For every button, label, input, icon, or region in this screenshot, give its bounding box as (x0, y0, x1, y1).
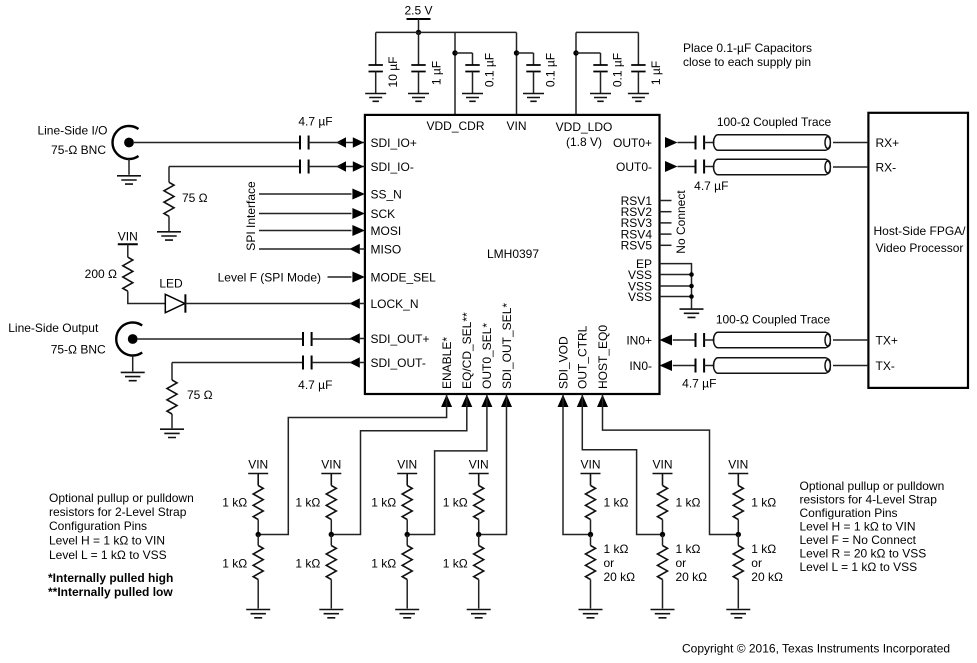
wire: C2 bottom lead (418, 72, 420, 94)
wire: VSS stub (660, 274, 692, 276)
svg-text:1 kΩ: 1 kΩ (751, 542, 776, 556)
wire: T1 to RX+ (833, 142, 867, 144)
pin OUT0_SEL* input arrow (481, 394, 492, 407)
svg-text:Level L = 1 kΩ to VSS: Level L = 1 kΩ to VSS (800, 560, 918, 574)
svg-text:Level F (SPI Mode): Level F (SPI Mode) (218, 271, 321, 285)
wire: SS_N (259, 193, 352, 195)
wire: HOST_EQ0 strap (603, 394, 739, 534)
wire: C4 bottom lead (533, 72, 535, 94)
capacitor C8 4.7 µF (300, 160, 309, 174)
svg-text:1 kΩ: 1 kΩ (676, 542, 701, 556)
svg-text:MODE_SEL: MODE_SEL (371, 270, 437, 284)
wire: R10 to node (737, 520, 739, 535)
pin IN0- input arrow (660, 360, 673, 371)
note: 4-level strap options (800, 479, 945, 574)
node: VDD_CDR cap tap (452, 50, 457, 55)
wire: J1 to C7 (134, 142, 300, 144)
svg-text:4.7 µF: 4.7 µF (682, 376, 716, 390)
wire: R15 to ground (590, 580, 592, 609)
svg-text:20 kΩ: 20 kΩ (676, 570, 708, 584)
resistor R1 75 Ω (164, 182, 174, 216)
svg-text:Level L = 1 kΩ to VSS: Level L = 1 kΩ to VSS (49, 548, 167, 562)
svg-text:Video Processor: Video Processor (876, 241, 964, 255)
svg-text:75-Ω BNC: 75-Ω BNC (51, 343, 106, 357)
wire: node to R17 (737, 535, 739, 546)
svg-text:Line-Side I/O: Line-Side I/O (37, 123, 107, 137)
ground (strap 4) (467, 610, 491, 618)
svg-text:close to each supply pin: close to each supply pin (683, 55, 811, 69)
svg-text:1 kΩ: 1 kΩ (295, 556, 320, 570)
resistor R17 1 kΩ/20 kΩ pull-down (733, 546, 743, 580)
svg-text:VIN: VIN (506, 119, 526, 133)
node: VSS junction (689, 294, 694, 299)
wire: C3 branch (455, 53, 473, 65)
node: 2.5 V rail junction (416, 30, 421, 35)
note: place caps close to supply pins (683, 41, 812, 69)
svg-text:Line-Side Output: Line-Side Output (8, 321, 99, 335)
svg-text:OUT0+: OUT0+ (613, 136, 652, 150)
ground (J2) (121, 372, 145, 380)
pin ENABLE* input arrow (441, 394, 452, 407)
svg-text:Level H = 1 kΩ to VIN: Level H = 1 kΩ to VIN (49, 533, 165, 547)
svg-text:SDI_OUT+: SDI_OUT+ (371, 332, 430, 346)
wire: R17 to ground (737, 580, 739, 609)
ground (strap 1) (246, 610, 270, 618)
svg-text:4.7 µF: 4.7 µF (298, 378, 332, 392)
wire: VIN pin lead (516, 32, 518, 115)
wire: R12 to ground (330, 580, 332, 609)
svg-text:Level R = 20 kΩ to VSS: Level R = 20 kΩ to VSS (800, 546, 927, 560)
resistor R11 1 kΩ pull-down (253, 546, 263, 580)
wire: R13 to ground (406, 580, 408, 609)
capacitor C7 4.7 µF (300, 136, 309, 150)
capacitor C5 0.1 µF (593, 65, 607, 72)
resistor R5 1 kΩ pull-up (326, 486, 336, 520)
ground (R3) (160, 429, 184, 437)
svg-text:VDD_CDR: VDD_CDR (426, 119, 484, 133)
wire: C4 branch (517, 53, 534, 65)
svg-text:Level H = 1 kΩ to VIN: Level H = 1 kΩ to VIN (800, 519, 916, 533)
wire: MISO (259, 248, 352, 250)
capacitor C2 1 µF (411, 65, 425, 72)
resistor R10 1 kΩ pull-up (733, 486, 743, 520)
ground (strap 3) (395, 610, 419, 618)
svg-text:Host-Side FPGA/: Host-Side FPGA/ (873, 224, 966, 238)
node: VSS junction (689, 284, 694, 289)
svg-text:resistors for 2-Level Strap: resistors for 2-Level Strap (49, 505, 187, 519)
svg-text:Configuration Pins: Configuration Pins (49, 519, 147, 533)
wire: LED cathode to LOCK_N (185, 303, 351, 305)
svg-text:SCK: SCK (371, 207, 396, 221)
supply rail VIN (LED pull-up) (118, 229, 138, 257)
svg-text:SDI_IO-: SDI_IO- (371, 160, 414, 174)
svg-text:LMH0397: LMH0397 (487, 247, 539, 261)
svg-text:MOSI: MOSI (371, 224, 402, 238)
wire: VDD_LDO pin lead (575, 32, 577, 115)
wire: VDD_CDR pin lead (454, 32, 456, 115)
wire: node to R14 (478, 535, 480, 546)
svg-text:1 kΩ: 1 kΩ (222, 495, 247, 509)
node strap 4 (476, 532, 481, 537)
wire: EQ/CD_SEL** strap (331, 394, 467, 534)
resistor R6 1 kΩ pull-up (402, 486, 412, 520)
resistor R15 1 kΩ/20 kΩ pull-down (586, 546, 596, 580)
wire: supply bus 2.5 V (376, 31, 517, 33)
pin SS_N input arrow (352, 189, 365, 200)
wire: R5 to node (330, 520, 332, 535)
resistor R12 1 kΩ pull-down (326, 546, 336, 580)
wire: C13 to IN0+ (673, 339, 696, 341)
ground (C3) (462, 94, 483, 102)
wire: C6 bottom lead (637, 72, 639, 94)
capacitor C13 4.7 µF (696, 333, 705, 347)
node strap 2 (329, 532, 334, 537)
svg-text:1 kΩ: 1 kΩ (371, 495, 396, 509)
wire: SDI_OUT- stub (360, 362, 365, 364)
wire: R11 to ground (257, 580, 259, 609)
node strap 6 (660, 532, 665, 537)
pin OUT_CTRL input arrow (577, 394, 588, 407)
pin EQ/CD_SEL** input arrow (461, 394, 472, 407)
svg-text:200 Ω: 200 Ω (85, 267, 117, 281)
wire: MISO stub (360, 248, 365, 250)
svg-text:75 Ω: 75 Ω (182, 191, 208, 205)
transmission line T1 (100-Ω coupled trace) (713, 135, 830, 151)
svg-text:1 kΩ: 1 kΩ (371, 556, 396, 570)
ground (R1) (157, 232, 181, 240)
wire: OUT0_SEL* strap (407, 394, 487, 534)
svg-text:VIN: VIN (728, 457, 748, 471)
wire: J2 ground lead (132, 356, 134, 372)
wire: C7 to SDI_IO+ (309, 142, 341, 144)
svg-text:1 kΩ: 1 kΩ (604, 495, 629, 509)
svg-text:SPI Interface: SPI Interface (244, 181, 258, 251)
pin IN0+ input arrow (660, 335, 673, 346)
wire: C12 to trace (704, 166, 714, 168)
wire: C10 to SDI_OUT- (312, 362, 352, 364)
svg-text:*Internally pulled high: *Internally pulled high (48, 571, 173, 585)
wire: node to R11 (257, 535, 259, 546)
pin OUT0+ output arrow (665, 137, 678, 148)
svg-text:LOCK_N: LOCK_N (371, 297, 419, 311)
svg-text:VIN: VIN (248, 457, 268, 471)
wire: VDD_LDO cap bus (576, 31, 638, 33)
wire: SCK (259, 213, 352, 215)
wire: R14 to ground (478, 580, 480, 609)
pin RSV5 no-connect stub (660, 244, 672, 246)
wire: R7 to node (478, 520, 480, 535)
svg-text:VIN: VIN (580, 457, 600, 471)
ground (C5) (590, 94, 611, 102)
node strap 5 (588, 532, 593, 537)
capacitor C1 10 µF (369, 65, 383, 72)
wire: ENABLE* strap (258, 394, 446, 534)
svg-text:OUT0-: OUT0- (616, 160, 652, 174)
wire: R1 node to C8 (169, 166, 300, 168)
pin SDI_VOD input arrow (558, 394, 569, 407)
svg-text:SDI_VOD: SDI_VOD (556, 336, 570, 389)
svg-text:1 kΩ: 1 kΩ (295, 495, 320, 509)
svg-text:1 µF: 1 µF (649, 61, 663, 85)
svg-text:VSS: VSS (628, 290, 652, 304)
svg-text:MISO: MISO (371, 242, 402, 256)
pin SDI_OUT_SEL* input arrow (501, 394, 512, 407)
block U2 Host-Side FPGA/Video Processor (868, 113, 968, 388)
svg-text:Copyright © 2016, Texas Instru: Copyright © 2016, Texas Instruments Inco… (682, 642, 950, 656)
wire: R9 to node (662, 520, 664, 535)
wire: LOCK_N stub (360, 303, 365, 305)
ground (C1) (365, 94, 386, 102)
svg-text:or: or (751, 556, 762, 570)
resistor R16 1 kΩ/20 kΩ pull-down (658, 546, 668, 580)
capacitor C10 4.7 µF (303, 356, 312, 370)
svg-text:1 kΩ: 1 kΩ (222, 556, 247, 570)
wire: C3 bottom lead (472, 72, 474, 94)
node strap 1 (256, 532, 261, 537)
svg-text:**Internally pulled low: **Internally pulled low (48, 585, 173, 599)
svg-text:RSV5: RSV5 (621, 239, 653, 253)
svg-text:0.1 µF: 0.1 µF (482, 53, 496, 87)
ground (strap 7) (726, 610, 750, 618)
wire: C13 to trace (704, 339, 714, 341)
supply rail 2.5 V (404, 3, 432, 32)
svg-text:1 kΩ: 1 kΩ (676, 495, 701, 509)
svg-text:4.7 µF: 4.7 µF (298, 114, 332, 128)
wire: node to R16 (662, 535, 664, 546)
ground (strap 5) (579, 610, 603, 618)
wire: J2 to C9 (138, 338, 303, 340)
svg-text:Optional pullup or pulldown: Optional pullup or pulldown (800, 479, 945, 493)
svg-text:SDI_OUT-: SDI_OUT- (371, 356, 426, 370)
wire: node to R13 (406, 535, 408, 546)
svg-text:RX-: RX- (876, 160, 897, 174)
ground (VSS bus) (680, 309, 704, 317)
svg-text:Configuration Pins: Configuration Pins (800, 506, 898, 520)
pin SCK input arrow (352, 208, 365, 219)
diode D1 LED (165, 294, 185, 312)
svg-text:VIN: VIN (118, 229, 138, 243)
svg-text:0.1 µF: 0.1 µF (610, 53, 624, 87)
svg-text:LED: LED (159, 276, 183, 290)
wire: C5 bottom lead (600, 72, 602, 94)
resistor R8 1 kΩ pull-up (586, 486, 596, 520)
connector J1 BNC (line-side I/O) (113, 126, 139, 159)
node strap 7 (736, 532, 741, 537)
svg-text:Level F = No Connect: Level F = No Connect (800, 533, 917, 547)
pin SDI_IO- bidirectional arrow (341, 166, 365, 168)
wire: OUT0- to C12 (678, 166, 696, 168)
wire: C11 to trace (704, 142, 714, 144)
resistor R4 1 kΩ pull-up (253, 486, 263, 520)
svg-text:IN0+: IN0+ (626, 333, 652, 347)
wire: R8 to node (590, 520, 592, 535)
capacitor C9 4.7 µF (303, 332, 312, 346)
ground (C6) (628, 94, 649, 102)
capacitor C12 4.7 µF (696, 160, 705, 174)
resistor R14 1 kΩ pull-down (474, 546, 484, 580)
svg-text:or: or (676, 556, 687, 570)
op-amp U1 LMH0397 body (365, 115, 660, 394)
wire: C1 top lead (375, 32, 377, 65)
wire: R2 to LED anode (128, 291, 166, 303)
svg-text:0.1 µF: 0.1 µF (543, 53, 557, 87)
node strap 3 (405, 532, 410, 537)
svg-text:1 kΩ: 1 kΩ (443, 495, 468, 509)
wire: C5 branch (576, 53, 601, 65)
svg-text:ENABLE*: ENABLE* (440, 337, 454, 389)
svg-text:4.7 µF: 4.7 µF (694, 179, 728, 193)
wire: MODE_SEL strap (328, 276, 352, 278)
note: internal pull defaults (48, 571, 173, 599)
capacitor C14 4.7 µF (696, 359, 705, 373)
capacitor C11 4.7 µF (696, 136, 705, 150)
pin MISO output arrow (349, 244, 360, 254)
svg-text:OUT_CTRL: OUT_CTRL (576, 325, 590, 389)
svg-text:75-Ω BNC: 75-Ω BNC (51, 143, 106, 157)
wire: OUT_CTRL strap (582, 394, 662, 534)
svg-text:Place 0.1-µF Capacitors: Place 0.1-µF Capacitors (683, 41, 812, 55)
svg-text:SS_N: SS_N (371, 187, 402, 201)
wire: VSS stub (660, 296, 692, 298)
svg-text:1 kΩ: 1 kΩ (443, 556, 468, 570)
ground (strap 6) (651, 610, 675, 618)
ground (J1) (117, 176, 141, 184)
wire: EP to ground bus (660, 264, 692, 310)
svg-text:VIN: VIN (397, 457, 417, 471)
wire: R3 to ground (171, 414, 173, 428)
svg-text:HOST_EQ0: HOST_EQ0 (596, 325, 610, 389)
transmission line T3 (100-Ω coupled trace) (714, 332, 831, 348)
svg-text:1 kΩ: 1 kΩ (604, 542, 629, 556)
svg-text:resistors for 4-Level Strap: resistors for 4-Level Strap (800, 492, 938, 506)
wire: C9 to SDI_OUT+ (312, 338, 352, 340)
pin RSV1 no-connect stub (660, 200, 672, 202)
pin MODE_SEL input arrow (352, 272, 365, 283)
wire: SDI_OUT+ stub (360, 338, 365, 340)
ground (C4) (523, 94, 544, 102)
svg-text:TX+: TX+ (876, 333, 898, 347)
svg-text:Optional pullup or pulldown: Optional pullup or pulldown (49, 491, 194, 505)
pin LOCK_N output arrow (349, 298, 360, 308)
svg-text:100-Ω Coupled Trace: 100-Ω Coupled Trace (717, 115, 832, 129)
wire: C2 top lead (418, 32, 420, 65)
pin SDI_IO+ bidirectional arrow (341, 142, 365, 144)
node: VSS junction (689, 272, 694, 277)
pin RSV4 no-connect stub (660, 233, 672, 235)
pin SDI_OUT+ output arrow (349, 333, 360, 343)
pin HOST_EQ0 input arrow (597, 394, 608, 407)
wire: OUT0+ to C11 (678, 142, 696, 144)
wire: SDI_VOD strap (563, 394, 591, 534)
svg-text:2.5 V: 2.5 V (404, 3, 432, 17)
wire: C8 to SDI_IO- (309, 166, 341, 168)
wire: R6 to node (406, 520, 408, 535)
transmission line T4 (100-Ω coupled trace) (714, 358, 831, 374)
wire: C1 bottom lead (375, 72, 377, 94)
capacitor C3 0.1 µF (465, 65, 479, 72)
wire: SDI_IO- to R1 (168, 167, 170, 183)
resistor R3 75 Ω (167, 380, 177, 414)
wire: R3 node to C10 (172, 362, 303, 364)
wire: R16 to ground (662, 580, 664, 609)
wire: node to R15 (590, 535, 592, 546)
wire: C14 to trace (704, 365, 714, 367)
label R16 value (676, 542, 708, 584)
wire: R1 to ground (168, 216, 170, 231)
svg-text:OUT0_SEL*: OUT0_SEL* (480, 323, 494, 389)
connector J2 BNC (line-side output) (116, 323, 142, 356)
wire: SDI_OUT_SEL* strap (479, 394, 507, 534)
resistor R9 1 kΩ pull-up (658, 486, 668, 520)
ground (strap 2) (319, 610, 343, 618)
svg-text:RX+: RX+ (876, 136, 900, 150)
svg-text:VIN: VIN (321, 457, 341, 471)
svg-text:VDD_LDO: VDD_LDO (556, 120, 613, 134)
wire: T3 to TX+ (833, 339, 867, 341)
svg-text:1 kΩ: 1 kΩ (751, 495, 776, 509)
svg-text:20 kΩ: 20 kΩ (604, 570, 636, 584)
svg-text:75 Ω: 75 Ω (187, 388, 213, 402)
svg-text:SDI_OUT_SEL*: SDI_OUT_SEL* (500, 303, 514, 389)
wire: SDI_OUT- to R3 (171, 363, 173, 381)
svg-text:(1.8 V): (1.8 V) (566, 135, 602, 149)
wire: MOSI (259, 230, 352, 232)
label R15 value (604, 542, 636, 584)
svg-text:or: or (604, 556, 615, 570)
pin MOSI input arrow (352, 225, 365, 236)
wire: R4 to node (257, 520, 259, 535)
node: VIN cap tap (514, 50, 519, 55)
svg-text:VIN: VIN (469, 457, 489, 471)
svg-text:No Connect: No Connect (674, 190, 688, 254)
wire: node to R12 (330, 535, 332, 546)
svg-text:1 µF: 1 µF (429, 61, 443, 85)
capacitor C6 1 µF (631, 65, 645, 72)
svg-text:20 kΩ: 20 kΩ (751, 570, 783, 584)
label R17 value (751, 542, 783, 584)
capacitor C4 0.1 µF (526, 65, 540, 72)
wire: C14 to IN0- (673, 365, 696, 367)
resistor R2 200 Ω (123, 257, 133, 291)
wire: T2 to RX- (833, 166, 867, 168)
svg-text:SDI_IO+: SDI_IO+ (371, 136, 417, 150)
resistor R7 1 kΩ pull-up (474, 486, 484, 520)
node: VDD_LDO cap tap (573, 50, 578, 55)
wire: J1 ground lead (128, 159, 130, 175)
transmission line T2 (100-Ω coupled trace) (713, 159, 830, 175)
pin RSV3 no-connect stub (660, 222, 672, 224)
wire: VSS stub (660, 285, 692, 287)
svg-text:10 µF: 10 µF (386, 57, 400, 88)
svg-text:IN0-: IN0- (629, 359, 652, 373)
ground (C2) (408, 94, 429, 102)
pin RSV2 no-connect stub (660, 211, 672, 213)
note: 2-level strap options (49, 491, 194, 562)
wire: T4 to TX- (833, 365, 867, 367)
svg-text:VIN: VIN (652, 457, 672, 471)
resistor R13 1 kΩ pull-down (402, 546, 412, 580)
svg-text:100-Ω Coupled Trace: 100-Ω Coupled Trace (716, 312, 831, 326)
pin OUT0- output arrow (665, 161, 678, 172)
wire: C6 top lead (637, 32, 639, 65)
pin SDI_OUT- output arrow (349, 357, 360, 367)
svg-text:EQ/CD_SEL**: EQ/CD_SEL** (460, 312, 474, 389)
svg-text:TX-: TX- (876, 359, 895, 373)
